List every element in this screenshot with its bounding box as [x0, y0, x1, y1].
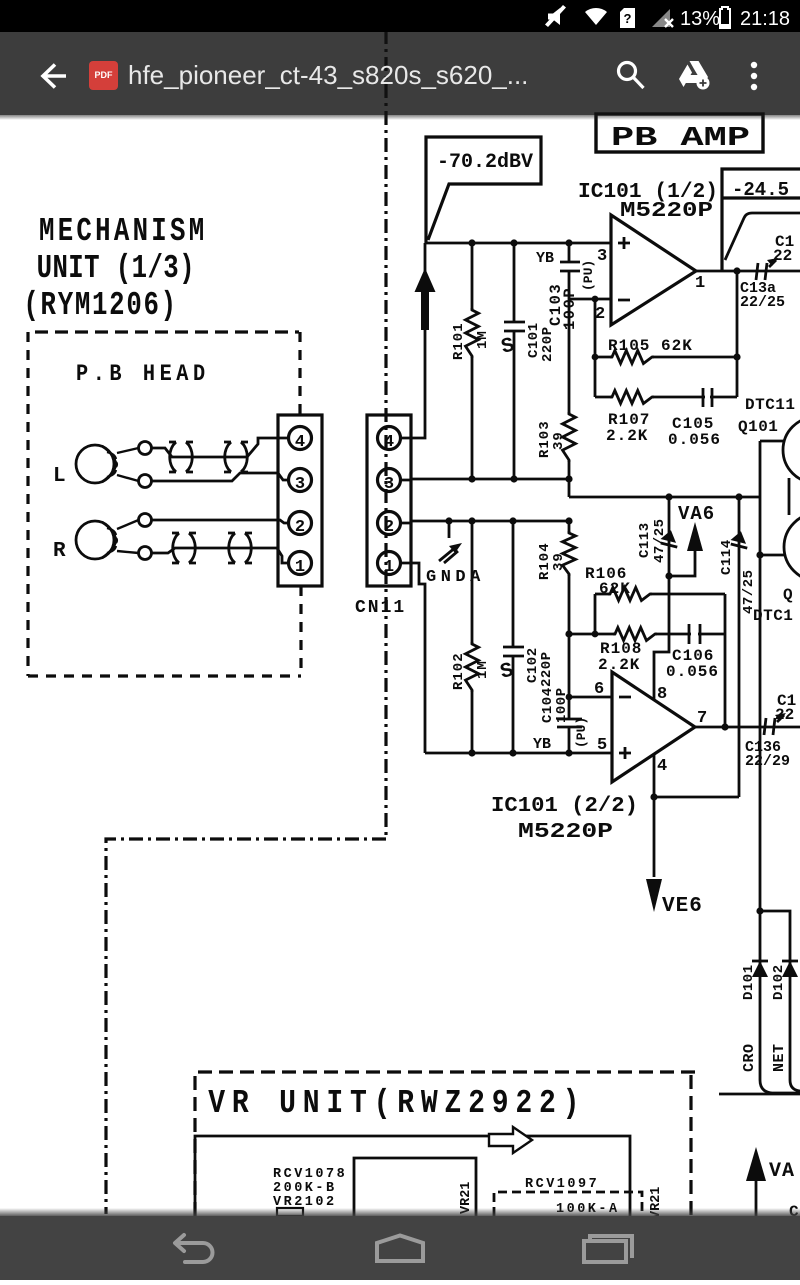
overflow dots	[751, 62, 757, 90]
svg-text:MECHANISM: MECHANISM	[39, 212, 207, 250]
power VA arrow bottom	[746, 1147, 766, 1181]
wire op-amp2 pin4 to VE6	[653, 754, 656, 877]
svg-text:P.B HEAD: P.B HEAD	[76, 361, 210, 388]
svg-text:5: 5	[597, 736, 607, 755]
svg-text:62K: 62K	[599, 580, 631, 598]
svg-text:(RYM1206): (RYM1206)	[23, 286, 177, 324]
wire CN11 pin1 to +input bus2	[401, 563, 426, 753]
svg-text:1M: 1M	[475, 660, 491, 679]
capacitor C102 220P	[503, 521, 524, 753]
svg-text:IC101 (2/2): IC101 (2/2)	[491, 795, 638, 818]
wire +input bus2 y=753	[425, 752, 612, 755]
wire op-amp1 inverting input	[569, 298, 611, 301]
svg-text:(PU): (PU)	[574, 717, 589, 748]
transistor R playback head	[53, 514, 152, 564]
potentiometer VR2102 box	[354, 1158, 476, 1216]
svg-text:-24.5: -24.5	[732, 179, 789, 201]
nav recents	[584, 1236, 632, 1262]
svg-text:100P: 100P	[554, 687, 570, 723]
svg-text:220P: 220P	[540, 326, 556, 362]
back arrow	[43, 65, 66, 88]
node L wire connector pair 2	[224, 442, 248, 472]
resistor R108 2.2K	[569, 633, 615, 636]
svg-text:4: 4	[295, 433, 305, 452]
battery	[720, 7, 730, 28]
wire mechanism-unit dash-dot boundary vertical	[384, 30, 387, 839]
wire CN11 pin4 up to +input bus	[401, 243, 426, 438]
node -70.2dBV callout	[426, 137, 541, 243]
svg-text:R: R	[53, 540, 66, 563]
wire L head bottom to pin3	[152, 473, 290, 481]
node VR pcb box	[195, 1136, 630, 1216]
svg-text:M5220P: M5220P	[620, 200, 713, 223]
svg-text:4: 4	[657, 757, 667, 776]
capacitor C114 47/25	[738, 497, 741, 797]
svg-text:VE6: VE6	[662, 895, 703, 918]
svg-text:RCV1078: RCV1078	[273, 1167, 347, 1182]
svg-text:7: 7	[697, 709, 707, 728]
svg-text:UNIT (1/3): UNIT (1/3)	[37, 249, 195, 287]
capacitor C105 0.056	[703, 388, 712, 407]
resistor R103 39	[568, 299, 571, 414]
svg-text:Q101: Q101	[738, 418, 778, 436]
svg-text:M5220P: M5220P	[518, 821, 613, 844]
svg-text:8: 8	[657, 685, 667, 704]
wire VA6 rail y=497	[569, 496, 760, 499]
wire output continues right	[725, 213, 800, 260]
wire op-amp2 pin8 supply	[654, 576, 669, 700]
svg-text:D101: D101	[741, 964, 757, 1000]
svg-text:2.2K: 2.2K	[606, 427, 648, 445]
svg-text:0.056: 0.056	[666, 663, 719, 681]
capacitor C104 100P	[557, 634, 582, 753]
mute icon	[545, 5, 566, 27]
node direction arrow outline	[489, 1127, 532, 1153]
wire op-amp1 output	[696, 270, 800, 273]
svg-text:DTC1: DTC1	[753, 607, 793, 625]
svg-text:3: 3	[295, 475, 305, 494]
node -24.5dBV callout	[722, 169, 800, 271]
node signal direction arrow	[415, 268, 436, 330]
wire Q101 emitter to Q102	[788, 478, 791, 515]
wire feedback tap op-amp1	[594, 299, 597, 397]
node VR UNIT dashed box	[195, 1072, 695, 1216]
wire +input bus y=243	[425, 242, 611, 245]
op-amp U1 IC101 (1/2)	[611, 215, 696, 325]
resistor R104 39	[568, 521, 571, 533]
power VA6 arrow	[687, 522, 703, 551]
wire R head top to pin2	[152, 520, 290, 523]
svg-text:CN11: CN11	[355, 598, 406, 618]
wire CN11 pin3 ground bus y=479	[401, 479, 570, 497]
capacitor C133 22/25 polarized	[756, 263, 767, 280]
resistor R101 1M	[471, 243, 474, 310]
nav back	[175, 1235, 213, 1262]
svg-text:YB: YB	[536, 250, 554, 267]
svg-text:0.056: 0.056	[668, 431, 721, 449]
ground GNDA	[448, 521, 451, 538]
svg-text:DTC11: DTC11	[745, 396, 796, 414]
svg-text:2: 2	[384, 518, 394, 537]
node P.B HEAD dashed box	[35, 330, 299, 333]
node R wire connector pair 2	[228, 533, 252, 563]
resistor R102 1M	[471, 521, 474, 644]
node head connector	[278, 415, 322, 586]
svg-text:D102: D102	[771, 964, 787, 1000]
svg-text:R101: R101	[451, 322, 467, 360]
node PB AMP title box	[596, 114, 763, 152]
svg-text:22: 22	[775, 706, 794, 724]
svg-text:22/29: 22/29	[745, 753, 790, 770]
diode D101	[752, 961, 768, 977]
svg-text:VA6: VA6	[678, 503, 715, 525]
node connector CN11	[367, 415, 411, 586]
capacitor C106 0.056	[689, 624, 700, 644]
svg-text:PB AMP: PB AMP	[611, 124, 750, 154]
wire mechanism-unit dash-dot boundary step	[106, 839, 386, 1214]
wire Q101 base column	[759, 441, 762, 911]
svg-text:(PU): (PU)	[581, 260, 596, 291]
svg-text:NET: NET	[771, 1043, 788, 1072]
diode D102	[782, 961, 798, 977]
svg-text:CRO: CRO	[741, 1043, 758, 1072]
svg-text:22/25: 22/25	[740, 294, 785, 311]
wire feedback right leg2	[724, 594, 727, 727]
wire CN11 pin2 ground bus y=521	[401, 521, 570, 523]
signal x icon	[652, 9, 673, 27]
svg-text:1: 1	[695, 274, 705, 293]
svg-text:R102: R102	[451, 652, 467, 690]
svg-text:39: 39	[551, 431, 567, 450]
nav home	[377, 1236, 423, 1262]
svg-text:VR UNIT(RWZ2922): VR UNIT(RWZ2922)	[208, 1086, 586, 1123]
svg-text:C113: C113	[637, 522, 653, 558]
svg-text:47/25: 47/25	[652, 518, 668, 563]
svg-text:R105 62K: R105 62K	[608, 337, 693, 355]
svg-text:4: 4	[384, 433, 394, 452]
svg-text:GNDA: GNDA	[426, 568, 485, 587]
wire diode branch	[756, 907, 763, 914]
wire op-amp2 output	[695, 726, 800, 729]
svg-text:VA: VA	[769, 1160, 795, 1183]
svg-text:2.2K: 2.2K	[598, 656, 640, 674]
svg-text:3: 3	[384, 475, 394, 494]
capacitor C103 100P	[560, 243, 580, 299]
svg-text:39: 39	[551, 552, 567, 571]
power VE6 arrow	[646, 879, 662, 912]
svg-text:220P: 220P	[539, 651, 555, 687]
node MECHANISM UNIT title	[23, 212, 207, 324]
wire op-amp2 inverting input	[569, 696, 612, 699]
transistor L playback head	[53, 442, 152, 489]
capacitor C101 220P	[504, 243, 525, 479]
svg-text:RCV1097: RCV1097	[525, 1177, 599, 1192]
svg-text:3: 3	[597, 247, 607, 266]
svg-text:2: 2	[595, 305, 605, 324]
svg-text:C114: C114	[719, 539, 735, 575]
op-amp U2 IC101 (2/2)	[612, 672, 695, 782]
svg-text:22: 22	[773, 247, 792, 265]
svg-text:1M: 1M	[475, 330, 491, 349]
capacitor C135 22/25 polarized	[764, 718, 775, 735]
node R wire connector pair 1	[172, 533, 196, 563]
svg-text:1: 1	[295, 558, 305, 577]
sim question icon	[620, 8, 635, 28]
wire L head top to pin4	[152, 438, 290, 457]
svg-text:1: 1	[384, 558, 394, 577]
svg-text:6: 6	[594, 680, 604, 699]
drive add icon	[679, 61, 710, 90]
wire CRO NET to bus	[760, 1080, 800, 1093]
capacitor C113 47/25	[668, 497, 671, 576]
wire R head bottom to pin1	[152, 548, 290, 563]
svg-text:Q: Q	[783, 586, 793, 604]
svg-text:YB: YB	[533, 736, 551, 753]
resistor R105 62K	[595, 356, 612, 359]
node L wire connector pair 1	[169, 442, 193, 472]
transistor Q102	[784, 513, 800, 581]
resistor R107 2.2K	[595, 396, 612, 399]
wifi icon	[585, 8, 607, 25]
wire feedback right leg	[736, 271, 739, 397]
search icon	[619, 63, 644, 89]
svg-text:L: L	[53, 465, 66, 488]
resistor R106 62K	[595, 593, 610, 596]
svg-text:-70.2dBV: -70.2dBV	[437, 151, 533, 174]
wire feedback tap op-amp2	[594, 594, 597, 634]
svg-text:2: 2	[295, 518, 305, 537]
svg-text:200K-B: 200K-B	[273, 1181, 337, 1196]
